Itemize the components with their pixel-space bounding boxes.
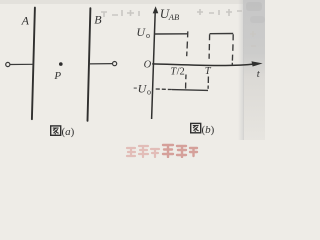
svg-text:o: o (147, 87, 151, 96)
svg-text:(b): (b) (202, 124, 215, 136)
svg-text:O: O (144, 59, 152, 70)
svg-text:(a): (a) (62, 126, 75, 138)
svg-text:B: B (94, 12, 102, 26)
svg-text:P: P (53, 70, 61, 82)
svg-text:o: o (146, 31, 150, 40)
svg-text:/2: /2 (177, 66, 185, 77)
svg-text:AB: AB (168, 12, 179, 22)
svg-text:-: - (133, 80, 137, 94)
svg-text:U: U (136, 25, 146, 39)
svg-text:A: A (21, 14, 30, 28)
